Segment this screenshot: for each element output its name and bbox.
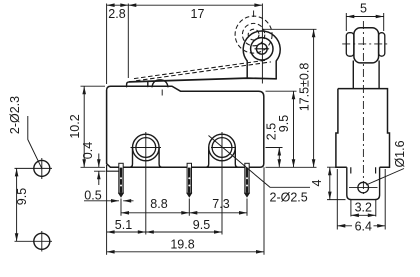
dashed free-position roller wheel <box>242 23 264 45</box>
centerline dashed roller ghost <box>253 11 255 18</box>
svg-text:9.5: 9.5 <box>15 188 29 205</box>
left view hole plate <box>15 116 53 252</box>
svg-text:5.1: 5.1 <box>115 218 132 232</box>
lever arm <box>130 78 277 82</box>
roller wheel <box>251 38 273 60</box>
centerlines hole A <box>15 158 53 179</box>
svg-text:8.8: 8.8 <box>150 197 167 211</box>
roller cylinder end view <box>354 28 379 63</box>
arrows 7.3 <box>189 211 197 215</box>
right mounting pedestal <box>205 148 238 168</box>
svg-text:Ø1.6: Ø1.6 <box>393 140 407 167</box>
dimension line 17.5 <box>313 29 315 167</box>
arrows 2.5 <box>278 148 282 156</box>
front view bottom-left step 0.4 <box>107 165 122 171</box>
centerlines hole B <box>15 231 53 252</box>
arrows 9.5 left view <box>15 168 19 176</box>
extension lines 4 <box>327 167 346 199</box>
extension lines 3.2 <box>351 200 376 217</box>
lever hinge <box>127 82 148 87</box>
svg-text:19.8: 19.8 <box>170 238 194 252</box>
right fork plate <box>379 33 385 57</box>
side view vertical centerline <box>362 21 364 197</box>
dimension line 4 <box>329 167 331 199</box>
extension line body step right <box>266 90 297 92</box>
roller pin centerline <box>342 43 389 45</box>
right mounting hole boss circle <box>209 134 236 161</box>
svg-text:17: 17 <box>191 7 205 21</box>
arrows 5 side <box>346 15 354 19</box>
centerline left hole <box>131 132 162 235</box>
extension lines 5 <box>346 13 383 31</box>
svg-text:0.4: 0.4 <box>81 142 95 159</box>
arrows 3.2 <box>351 214 359 218</box>
dimension line 9.5 left <box>16 168 18 241</box>
leader 2-O2.3 <box>28 116 42 168</box>
terminal pin 3 <box>245 163 249 197</box>
dashed free-position roller bracket <box>235 16 272 53</box>
dimension line 2.5 <box>278 148 280 168</box>
dimension line 9.5 right <box>293 91 295 167</box>
centerline plunger <box>161 90 163 96</box>
extension lines under pins <box>121 199 247 216</box>
front view body outline <box>107 86 264 167</box>
side view <box>336 28 390 200</box>
right mounting hole <box>212 138 232 158</box>
block notch lines <box>351 167 376 173</box>
arrows 8.8 <box>121 211 129 215</box>
arrowheads <box>15 3 385 253</box>
extension line body bottom right <box>266 166 317 168</box>
terminal pin 2 <box>187 163 191 197</box>
arrows 9.5 bottom <box>146 230 154 234</box>
dimension line 6.4 <box>337 225 385 227</box>
svg-text:9.5: 9.5 <box>193 218 210 232</box>
arrows 17.5 <box>312 29 316 37</box>
extension line hole center right <box>266 147 283 149</box>
roller bracket <box>243 31 280 79</box>
arrows 4 side <box>328 167 332 175</box>
svg-text:2.8: 2.8 <box>108 7 125 21</box>
terminal pin 1 <box>119 163 123 197</box>
arrows 19.8 <box>107 250 115 254</box>
dimension line 5 <box>346 16 383 18</box>
centerline roller front view <box>261 4 263 84</box>
dimension line 10.2 <box>83 86 85 167</box>
extension line body right bottom <box>263 167 265 255</box>
roller pin slot line <box>255 48 269 50</box>
side hole crosshair <box>349 187 378 189</box>
arrows 9.5 right <box>292 91 296 99</box>
svg-text:0.5: 0.5 <box>84 188 101 202</box>
dimension line 3.2 <box>351 214 376 216</box>
extension line body left bottom <box>106 171 108 255</box>
leader 2-O2.5 <box>209 136 311 188</box>
left mounting pedestal <box>129 148 162 168</box>
arrows 2.8 <box>107 3 115 7</box>
svg-text:6.4: 6.4 <box>355 219 372 233</box>
dimension line 5.1 / 9.5 <box>107 231 222 233</box>
svg-text:9.5: 9.5 <box>277 115 291 132</box>
roller pin hole <box>256 43 267 54</box>
side terminal hole <box>358 182 369 193</box>
extension line lever pivot <box>127 4 129 79</box>
arrows 10.2 <box>82 86 86 94</box>
dimension line 2.8 and 17 <box>107 4 263 6</box>
fork arms <box>353 61 379 89</box>
svg-text:7.3: 7.3 <box>212 197 229 211</box>
hole B <box>34 233 50 249</box>
dashed free-position lever bottom <box>136 62 271 81</box>
svg-text:3.2: 3.2 <box>355 201 372 215</box>
plunger dome <box>152 80 168 87</box>
left mounting hole <box>136 138 156 158</box>
svg-text:2-Ø2.5: 2-Ø2.5 <box>270 191 308 205</box>
extension lines left side <box>81 86 106 171</box>
extension lines 6.4 <box>337 169 385 230</box>
side terminal block <box>347 167 380 199</box>
dimension line 8.8 / 7.3 <box>121 212 247 214</box>
hole A <box>34 160 50 176</box>
svg-text:10.2: 10.2 <box>68 114 82 138</box>
leader O1.6 <box>366 169 404 186</box>
extension line body left top <box>106 4 108 85</box>
svg-text:5: 5 <box>360 2 367 16</box>
arrows 17 <box>128 3 136 7</box>
svg-text:17.5±0.8: 17.5±0.8 <box>298 63 312 112</box>
svg-text:4: 4 <box>310 179 324 186</box>
arrows 6.4 <box>337 224 345 228</box>
dimension line 0.4 <box>98 154 100 186</box>
arrows 0.4 <box>97 159 101 167</box>
svg-text:2-Ø2.3: 2-Ø2.3 <box>8 96 22 134</box>
arrows 5.1 <box>107 230 115 234</box>
left fork plate <box>346 33 354 57</box>
extension line roller top right <box>262 28 317 30</box>
centerline right hole <box>211 132 236 235</box>
dashed free-position pin hole <box>248 29 259 40</box>
left mounting hole boss circle <box>133 134 160 161</box>
dimension line 0.5 <box>84 200 134 202</box>
arrows 0.5 <box>111 199 119 203</box>
dashed free-position lever top <box>134 60 267 79</box>
dimension line 19.8 <box>107 251 264 253</box>
side body outline <box>336 89 390 168</box>
